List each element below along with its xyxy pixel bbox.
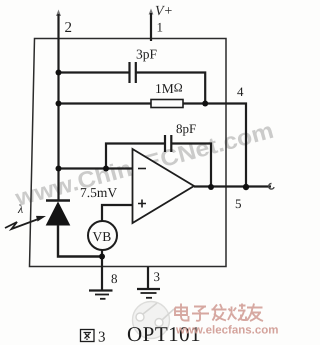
elecfans logo watermark xyxy=(133,302,175,339)
svg-text:λ: λ xyxy=(17,202,23,216)
svg-text:1: 1 xyxy=(157,20,164,35)
capacitor C2 8pF xyxy=(165,135,171,152)
svg-text:2: 2 xyxy=(65,20,73,36)
IC package outline U1 OPT101 xyxy=(30,39,227,267)
svg-text:www.elecfans.com: www.elecfans.com xyxy=(175,325,278,337)
junction node R1-C1 xyxy=(202,101,208,107)
wire R1 right exiting to pin4 corner xyxy=(183,104,246,188)
junction node VB-ground xyxy=(99,254,105,260)
wire C2 right leg to output xyxy=(171,144,211,188)
capacitor C1 3pF xyxy=(130,62,136,83)
svg-text:VB: VB xyxy=(93,229,112,244)
junction node C2left-inverting xyxy=(103,166,109,172)
wire VB bottom to ground pin8 xyxy=(101,250,103,291)
junction node rail-R1 xyxy=(56,101,62,107)
photodiode D1 xyxy=(46,201,70,226)
svg-text:3pF: 3pF xyxy=(136,47,158,62)
wire C1 right to corner xyxy=(136,73,205,104)
watermark text dianzifashaoyou xyxy=(175,304,263,322)
svg-text:7.5mV: 7.5mV xyxy=(80,185,117,200)
op-amp A1 xyxy=(133,149,195,223)
svg-text:3: 3 xyxy=(154,269,161,284)
junction node rail-C1 xyxy=(56,70,62,76)
svg-text:4: 4 xyxy=(237,84,244,99)
ground GND pin3 xyxy=(137,289,160,298)
V+ arrow terminal xyxy=(149,9,154,15)
caption figure number (Chinese tu3) xyxy=(81,330,95,342)
voltage source VB xyxy=(88,221,117,250)
wire pin2 left rail xyxy=(57,14,59,201)
junction node C2right-output xyxy=(208,184,214,190)
ground GND pin8 xyxy=(89,291,113,299)
svg-text:3: 3 xyxy=(98,330,106,345)
wire output pin5 xyxy=(194,185,271,187)
junction node rail-inverting xyxy=(56,166,62,172)
junction node feedback-output xyxy=(243,184,249,190)
light arrow xyxy=(5,216,46,229)
svg-text:8: 8 xyxy=(111,271,118,286)
svg-text:8pF: 8pF xyxy=(176,121,196,136)
wire inverting input xyxy=(59,167,133,169)
pin2 arrow terminal xyxy=(56,10,61,17)
watermark www.ChinaECNet.com xyxy=(12,117,277,211)
wire pin3 lead xyxy=(147,267,149,289)
output open terminal xyxy=(269,183,274,189)
wire non-inverting input xyxy=(102,205,132,221)
svg-text:5: 5 xyxy=(235,196,242,211)
wire feedback upper branch to C1 xyxy=(59,71,130,73)
wire pin1 V+ lead xyxy=(150,13,152,41)
wire D1 anode to VB node xyxy=(58,225,102,257)
svg-text:1MΩ: 1MΩ xyxy=(155,81,183,97)
wire C2 left leg xyxy=(106,144,165,169)
resistor R1 1M ohm xyxy=(151,100,183,108)
svg-text:V+: V+ xyxy=(155,4,173,19)
wire feedback lower branch to R1 xyxy=(59,102,152,104)
